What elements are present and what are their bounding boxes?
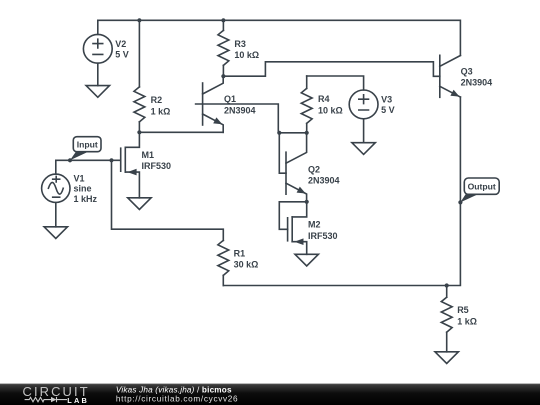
transistor Q2 2N3904 — [286, 133, 340, 202]
svg-text:V3: V3 — [381, 94, 392, 104]
sine source V1 — [42, 173, 98, 204]
junction Output node — [458, 200, 462, 204]
svg-text:V1: V1 — [74, 173, 85, 183]
svg-text:sine: sine — [74, 184, 92, 194]
mosfet M2 IRF530 — [279, 202, 337, 255]
junction top rail / R3 — [221, 18, 225, 22]
wire R1 branch rail — [112, 160, 224, 240]
svg-text:Q3: Q3 — [461, 67, 473, 77]
svg-text:5 V: 5 V — [381, 105, 395, 115]
ground under V3 — [352, 143, 375, 155]
ground under R5 — [435, 352, 458, 364]
wire Q2 base drop — [279, 133, 286, 173]
svg-text:30 kΩ: 30 kΩ — [234, 260, 259, 270]
ground under V1 — [44, 227, 67, 239]
junction Q2 emitter / M2 drain-gate — [305, 200, 309, 204]
svg-text:1 kΩ: 1 kΩ — [151, 106, 171, 116]
resistor R5 — [441, 286, 477, 352]
wire V1 bottom stem — [55, 203, 57, 227]
svg-text:2N3904: 2N3904 — [308, 176, 340, 186]
svg-text:R3: R3 — [234, 39, 246, 49]
svg-text:10 kΩ: 10 kΩ — [234, 50, 259, 60]
wire Q1 emitter rail — [139, 131, 223, 133]
transistor Q3 2N3904 — [440, 55, 492, 97]
wire R1 bottom to output node — [223, 285, 446, 287]
CircuitLab logo — [23, 384, 88, 405]
resistor R4 — [301, 76, 342, 133]
svg-text:Q2: Q2 — [308, 164, 320, 174]
junction R2 bottom / M1 drain / Q1 emitter — [137, 130, 141, 134]
svg-text:2N3904: 2N3904 — [224, 105, 256, 115]
svg-text:2N3904: 2N3904 — [461, 78, 493, 88]
resistor R3 — [218, 20, 259, 76]
junction input rail / R1 branch — [109, 158, 113, 162]
wire V2 bottom stem — [97, 63, 99, 85]
wire top supply rail — [98, 20, 461, 55]
wire V3 bottom stem — [363, 119, 365, 143]
svg-text:1 kHz: 1 kHz — [74, 194, 98, 204]
svg-text:LAB: LAB — [67, 396, 87, 405]
ground under M2 — [295, 254, 318, 266]
wire Q1 base to node B — [196, 104, 279, 133]
mosfet M1 IRF530 — [121, 132, 171, 198]
junction R1 / R5 / Q3 emitter — [445, 283, 449, 287]
svg-text:Output: Output — [468, 181, 496, 191]
svg-text:R4: R4 — [318, 94, 330, 104]
svg-text:R5: R5 — [457, 305, 469, 315]
node Input flag — [70, 137, 101, 161]
svg-text:IRF530: IRF530 — [142, 161, 172, 171]
svg-text:IRF530: IRF530 — [308, 231, 338, 241]
footer title text — [116, 385, 238, 403]
resistor R1 — [218, 240, 258, 285]
svg-text:Input: Input — [77, 139, 98, 149]
svg-text:M2: M2 — [308, 220, 321, 230]
svg-text:Q1: Q1 — [224, 94, 236, 104]
wire V1 top stem and input rail — [56, 160, 121, 174]
voltage source V2 — [83, 34, 128, 63]
ground under M1 — [128, 198, 151, 210]
svg-text:R1: R1 — [234, 248, 246, 258]
svg-text:V2: V2 — [115, 39, 126, 49]
wire V2 top stem — [97, 20, 99, 34]
svg-text:1 kΩ: 1 kΩ — [457, 316, 477, 326]
wire Q3 emitter to output node — [447, 97, 461, 285]
svg-text:http://circuitlab.com/cycvv26: http://circuitlab.com/cycvv26 — [116, 394, 238, 403]
resistor R2 — [134, 20, 170, 132]
node Output flag — [460, 178, 499, 202]
ground under V2 — [86, 86, 109, 98]
svg-text:5 V: 5 V — [115, 50, 129, 60]
voltage source V3 — [349, 90, 394, 119]
wire R4 top to V3 — [307, 76, 364, 90]
junction R4 bottom / Q2 collector — [305, 131, 309, 135]
svg-text:M1: M1 — [142, 150, 155, 160]
wire node B rail — [279, 132, 306, 134]
svg-text:10 kΩ: 10 kΩ — [318, 105, 343, 115]
svg-text:R2: R2 — [151, 95, 163, 105]
junction R3 bottom / Q1 collector / Q3 base wire — [221, 74, 225, 78]
svg-text:Vikas Jha (vikas.jha) / bicmos: Vikas Jha (vikas.jha) / bicmos — [116, 385, 232, 394]
wire R3 junction to Q3 base — [223, 62, 439, 77]
junction top rail / R2 — [137, 18, 141, 22]
transistor Q1 2N3904 — [203, 76, 256, 132]
junction Q1 base / Q2 base drop — [277, 131, 281, 135]
junction Input node — [68, 158, 72, 162]
